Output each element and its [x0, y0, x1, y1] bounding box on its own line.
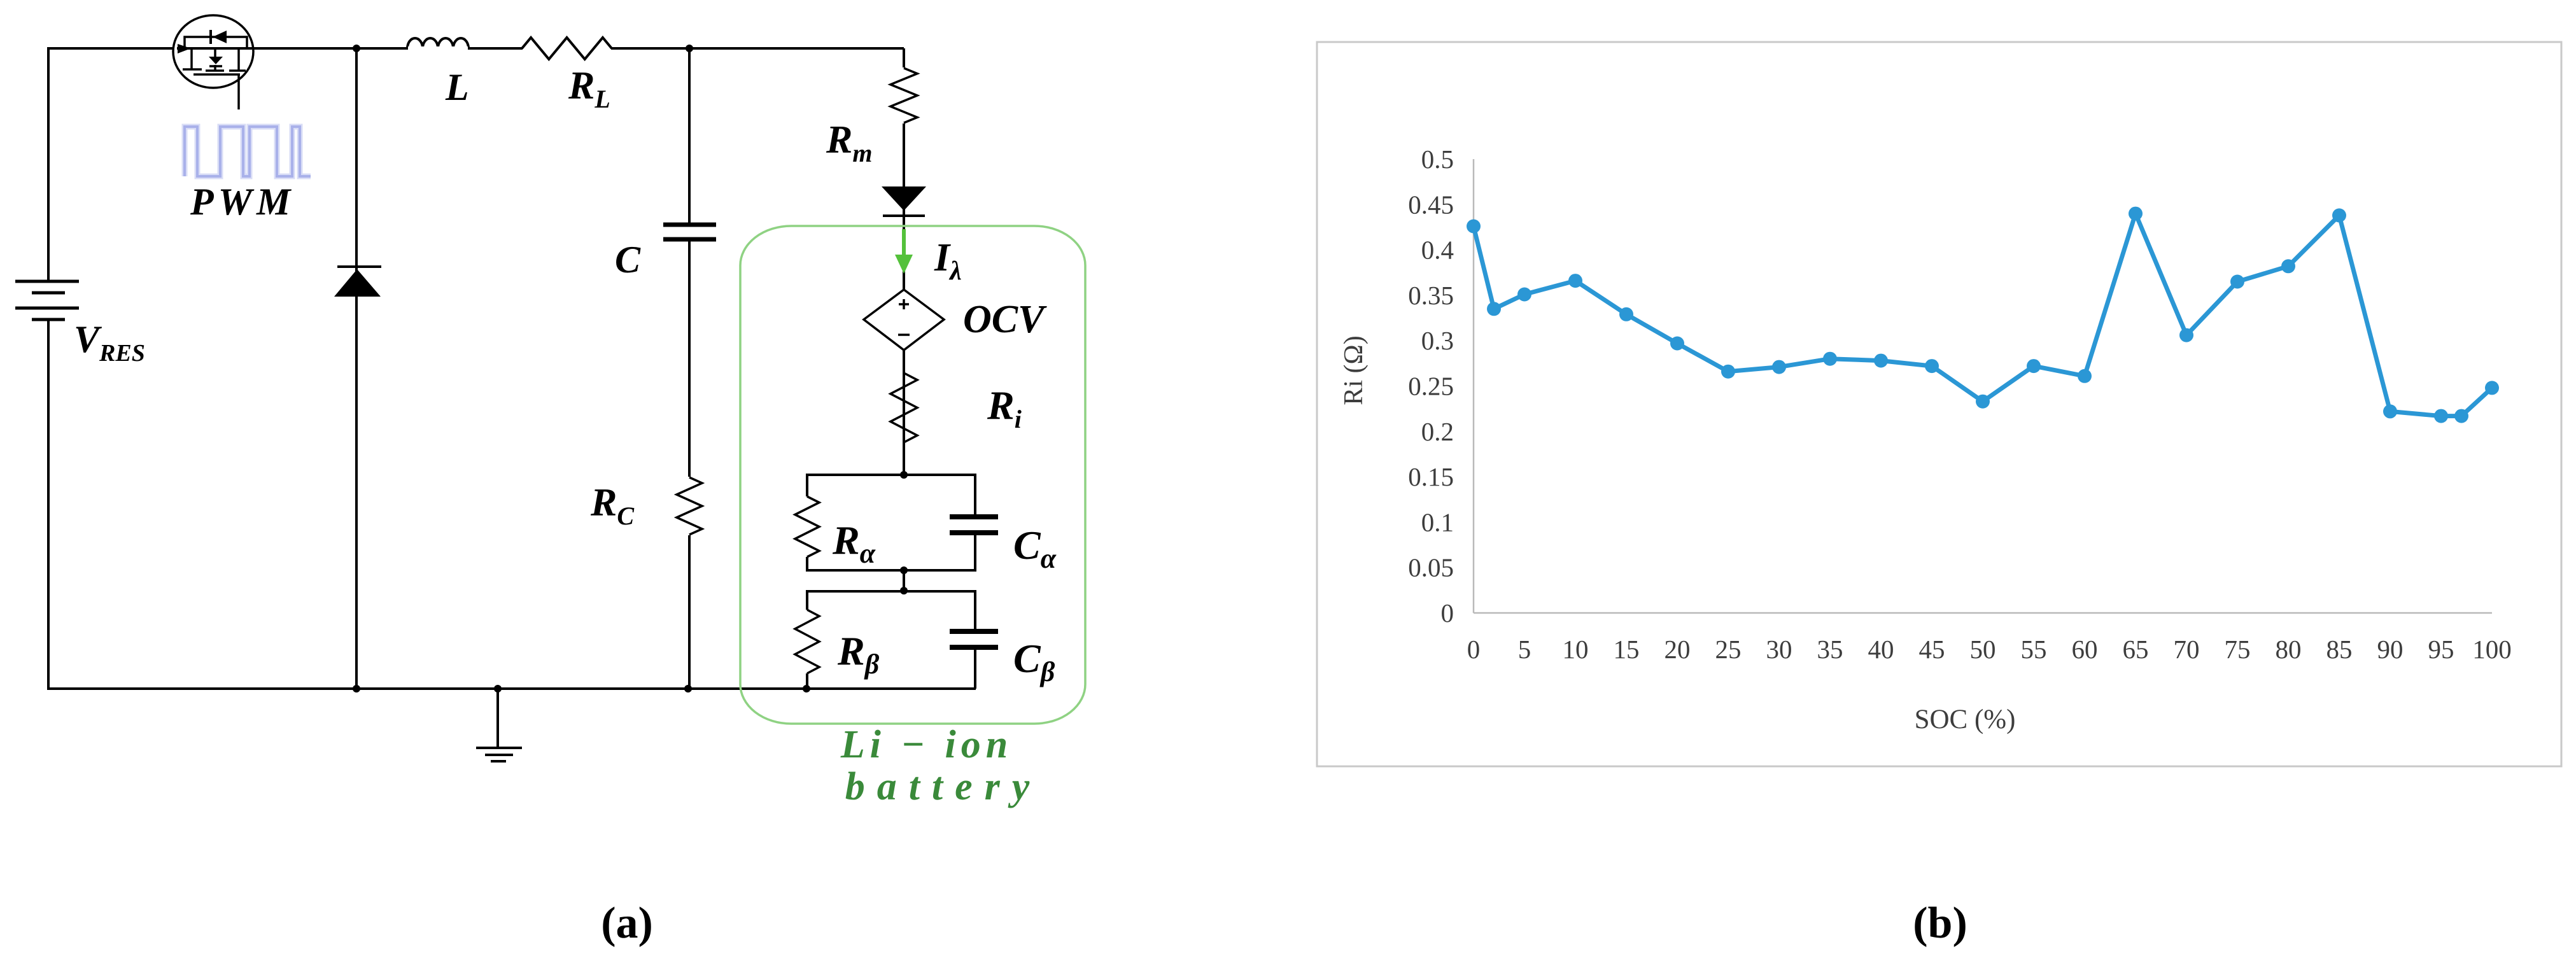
svg-text:65: 65	[2123, 635, 2149, 664]
svg-text:SOC (%): SOC (%)	[1915, 705, 2016, 735]
svg-text:70: 70	[2174, 635, 2200, 664]
svg-text:5: 5	[1518, 635, 1531, 664]
svg-text:10: 10	[1563, 635, 1589, 664]
svg-text:25: 25	[1715, 635, 1742, 664]
svg-text:90: 90	[2377, 635, 2404, 664]
svg-text:PWM: PWM	[190, 181, 295, 223]
svg-text:60: 60	[2072, 635, 2098, 664]
svg-text:0.05: 0.05	[1408, 553, 1454, 582]
svg-text:15: 15	[1614, 635, 1640, 664]
svg-text:0.4: 0.4	[1421, 235, 1454, 265]
svg-text:0.2: 0.2	[1421, 417, 1454, 446]
svg-text:(b): (b)	[1913, 899, 1967, 948]
svg-text:20: 20	[1665, 635, 1691, 664]
svg-text:(a): (a)	[601, 899, 653, 948]
svg-text:0.5: 0.5	[1421, 144, 1454, 174]
svg-text:OCV: OCV	[963, 298, 1047, 341]
svg-text:100: 100	[2472, 635, 2512, 664]
svg-text:95: 95	[2428, 635, 2454, 664]
svg-text:55: 55	[2021, 635, 2047, 664]
svg-text:0.3: 0.3	[1421, 326, 1454, 355]
svg-text:80: 80	[2276, 635, 2302, 664]
svg-text:40: 40	[1868, 635, 1894, 664]
svg-text:0: 0	[1441, 598, 1454, 628]
svg-text:0.25: 0.25	[1408, 372, 1454, 401]
svg-text:50: 50	[1970, 635, 1996, 664]
svg-text:85: 85	[2326, 635, 2353, 664]
svg-text:0: 0	[1467, 635, 1481, 664]
svg-text:Ri (Ω): Ri (Ω)	[1339, 335, 1369, 405]
svg-text:45: 45	[1919, 635, 1945, 664]
svg-text:0.1: 0.1	[1421, 507, 1454, 537]
svg-text:battery: battery	[845, 765, 1042, 808]
svg-text:Li − ion: Li − ion	[840, 723, 1013, 766]
svg-text:C: C	[615, 239, 641, 281]
svg-text:30: 30	[1766, 635, 1792, 664]
svg-text:0.15: 0.15	[1408, 462, 1454, 491]
svg-text:L: L	[445, 66, 469, 108]
svg-text:0.35: 0.35	[1408, 281, 1454, 310]
svg-text:0.45: 0.45	[1408, 190, 1454, 219]
svg-text:35: 35	[1817, 635, 1843, 664]
svg-text:75: 75	[2225, 635, 2251, 664]
